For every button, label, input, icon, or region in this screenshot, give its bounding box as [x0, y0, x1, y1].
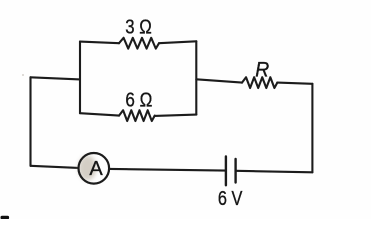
wire: ammeter to battery — [110, 169, 226, 171]
ammeter A1 letter — [89, 158, 103, 180]
label: 3 ohm — [125, 16, 152, 38]
ammeter A1 smudge — [79, 156, 97, 181]
wire: box top edge right segment — [159, 41, 196, 43]
battery B1 left plate — [225, 157, 227, 186]
resistor R1 3 ohm (zigzag) — [119, 38, 159, 49]
label: R — [255, 58, 269, 81]
wire: left vertical — [29, 77, 31, 166]
wire: resistor R to right corner — [277, 83, 312, 84]
wire: parallel box right edge — [195, 41, 197, 114]
resistor R2 6 ohm (zigzag) — [119, 110, 155, 121]
svg-text:6 V: 6 V — [218, 188, 243, 210]
ammeter A1 circle — [79, 153, 110, 184]
svg-text:3 Ω: 3 Ω — [125, 16, 152, 38]
svg-text:R: R — [255, 58, 269, 81]
battery B1 right plate — [234, 159, 236, 183]
wire: box top edge left segment — [80, 42, 119, 44]
wire: parallel box left edge — [79, 42, 81, 114]
wire: box bottom edge right segment — [155, 115, 197, 116]
wire: box bottom edge left segment — [80, 113, 119, 115]
wire: bottom left to ammeter — [31, 166, 79, 168]
resistor R (zigzag) — [242, 77, 277, 88]
wire: box right edge to resistor R — [196, 79, 242, 82]
svg-text:A: A — [89, 158, 103, 180]
wire: right vertical — [311, 84, 313, 173]
wire: battery to right corner — [236, 171, 313, 173]
label: 6 V — [218, 188, 243, 210]
svg-text:6 Ω: 6 Ω — [125, 90, 152, 112]
wire: left entry horizontal — [31, 77, 81, 79]
label: 6 ohm — [125, 90, 152, 112]
